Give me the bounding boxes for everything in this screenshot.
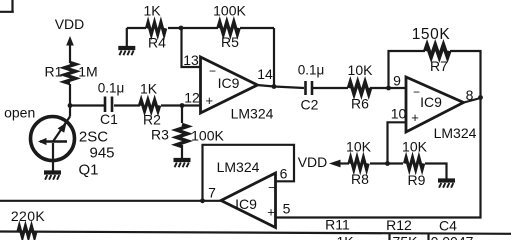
svg-text:LM324: LM324 <box>217 159 260 175</box>
svg-text:9: 9 <box>393 73 401 89</box>
svg-text:100K: 100K <box>213 3 246 19</box>
svg-text:75K: 75K <box>393 234 419 240</box>
svg-text:945: 945 <box>89 144 114 161</box>
svg-text:C4: C4 <box>439 218 457 234</box>
svg-text:7: 7 <box>208 185 216 201</box>
svg-text:+: + <box>267 205 275 220</box>
svg-text:1K: 1K <box>140 81 158 97</box>
svg-text:8: 8 <box>466 87 474 103</box>
svg-text:R1: R1 <box>45 64 63 80</box>
svg-text:LM324: LM324 <box>231 106 274 122</box>
svg-text:+: + <box>411 110 419 125</box>
svg-text:150K: 150K <box>412 26 451 43</box>
svg-text:R9: R9 <box>408 172 426 188</box>
svg-text:R11: R11 <box>325 217 350 233</box>
svg-text:10K: 10K <box>402 139 428 155</box>
svg-text:10K: 10K <box>348 62 374 78</box>
svg-text:VDD: VDD <box>298 154 328 170</box>
svg-text:R8: R8 <box>351 171 369 187</box>
svg-text:−: − <box>413 85 420 99</box>
svg-text:1K: 1K <box>143 3 161 19</box>
svg-text:C1: C1 <box>100 111 118 127</box>
svg-text:+: + <box>206 93 214 108</box>
svg-text:R5: R5 <box>221 34 239 50</box>
svg-text:R7: R7 <box>430 58 448 74</box>
svg-text:2SC: 2SC <box>79 128 108 145</box>
svg-text:open: open <box>4 105 35 121</box>
svg-text:LM324: LM324 <box>434 125 477 141</box>
svg-text:10: 10 <box>391 106 407 122</box>
svg-text:Q1: Q1 <box>78 162 98 179</box>
svg-text:13: 13 <box>183 52 199 68</box>
svg-text:220K: 220K <box>11 208 46 224</box>
svg-text:VDD: VDD <box>55 16 85 32</box>
svg-text:12: 12 <box>184 90 200 106</box>
svg-text:R12: R12 <box>386 217 412 233</box>
svg-text:100K: 100K <box>191 128 224 144</box>
svg-text:14: 14 <box>257 66 273 82</box>
svg-text:1K: 1K <box>336 234 354 240</box>
svg-text:R6: R6 <box>351 96 369 112</box>
svg-text:5: 5 <box>283 201 291 217</box>
svg-text:IC9: IC9 <box>218 75 240 91</box>
svg-text:IC9: IC9 <box>235 196 257 212</box>
svg-text:−: − <box>268 181 275 195</box>
svg-text:1M: 1M <box>78 64 97 80</box>
svg-text:−: − <box>209 64 216 78</box>
svg-text:0.1μ: 0.1μ <box>298 63 325 78</box>
svg-text:C2: C2 <box>301 97 319 113</box>
svg-text:IC9: IC9 <box>420 94 442 110</box>
svg-text:R4: R4 <box>148 35 166 51</box>
svg-text:R2: R2 <box>143 112 161 128</box>
svg-text:0.0047: 0.0047 <box>431 234 474 240</box>
svg-text:R3: R3 <box>151 127 169 143</box>
svg-text:10K: 10K <box>346 139 372 155</box>
svg-text:0.1μ: 0.1μ <box>98 81 125 96</box>
svg-text:6: 6 <box>280 166 288 182</box>
